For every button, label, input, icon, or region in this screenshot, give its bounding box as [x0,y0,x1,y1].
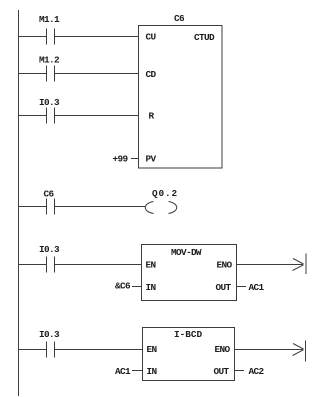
contact C6 [47,199,55,215]
contact M1.1 [47,29,55,45]
svg-text:OUT: OUT [216,282,232,293]
svg-text:CU: CU [146,32,157,43]
svg-text:OUT: OUT [214,366,230,377]
svg-text:I-BCD: I-BCD [174,329,203,340]
svg-text:AC1: AC1 [249,282,265,293]
wire rung4 left [19,206,47,208]
arrow rung5 [293,254,307,275]
svg-text:I0.3: I0.3 [39,329,60,340]
wire IN tick rung6 [132,370,143,372]
svg-text:+99: +99 [113,154,129,165]
wire rung1 right to CU [55,36,139,38]
svg-text:EN: EN [147,344,158,355]
svg-text:I0.3: I0.3 [39,97,60,108]
svg-text:AC1: AC1 [115,366,131,377]
wire rung4 right to coil [55,206,145,208]
svg-text:ENO: ENO [217,260,233,271]
wire ENO to arrow rung6 [235,349,304,351]
wire rung5 left [19,264,47,266]
svg-text:M1.2: M1.2 [39,55,60,66]
svg-text:Q0.2: Q0.2 [152,188,178,199]
svg-text:IN: IN [147,366,158,377]
wire rung6 left [19,349,47,351]
contact M1.2 [47,66,55,82]
wire rung5 right to EN [55,264,142,266]
wire rung3 right to R [55,115,139,117]
svg-text:PV: PV [146,154,157,165]
svg-text:R: R [149,111,155,122]
contact I0.3 rung6 [47,342,55,358]
wire OUT tick rung6 [235,370,245,372]
box I-BCD [143,328,235,381]
svg-text:C6: C6 [44,189,55,200]
wire rung1 left [19,36,47,38]
box MOV-DW [142,245,237,301]
wire ENO to arrow [237,264,304,266]
svg-text:&C6: &C6 [115,281,131,292]
wire rung3 left [19,115,47,117]
svg-text:C6: C6 [174,13,185,24]
counter box C6 CTUD [139,26,223,169]
svg-text:MOV-DW: MOV-DW [171,247,202,258]
wire rung2 left [19,73,47,75]
wire IN tick [132,286,142,288]
coil Q0.2 [145,202,177,214]
svg-text:AC2: AC2 [249,366,265,377]
wire rung6 right to EN [55,349,143,351]
svg-text:ENO: ENO [215,344,231,355]
wire rung2 right to CD [55,73,139,75]
svg-text:EN: EN [146,260,157,271]
contact I0.3 rung3 [47,108,55,124]
arrow rung6 [293,341,306,362]
contact I0.3 rung5 [47,257,55,273]
svg-text:I0.3: I0.3 [39,244,60,255]
wire OUT tick [237,286,247,288]
left power rail [18,10,20,396]
svg-text:CTUD: CTUD [194,32,215,43]
svg-text:CD: CD [146,69,157,80]
wire PV tick [131,158,139,160]
svg-text:IN: IN [146,282,157,293]
svg-text:M1.1: M1.1 [39,14,60,25]
